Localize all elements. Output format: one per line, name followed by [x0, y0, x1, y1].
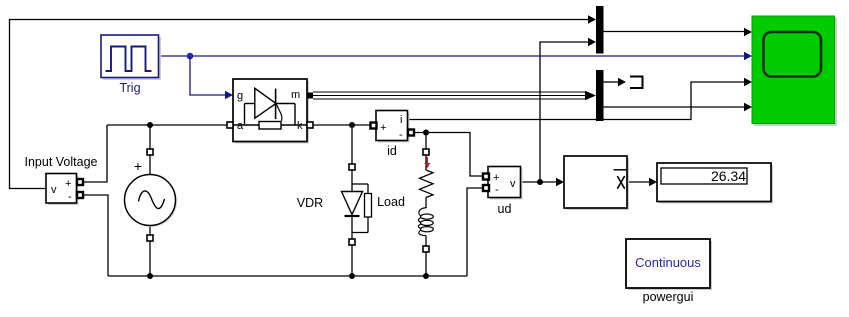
svg-text:powergui: powergui	[643, 290, 694, 304]
svg-text:id: id	[387, 144, 397, 158]
svg-text:k: k	[297, 120, 303, 132]
wire: thyristor m vector signal (triple line) to Demux	[313, 91, 586, 93]
current measurement id	[371, 111, 415, 159]
AC voltage source	[125, 149, 178, 241]
svg-text:Trig: Trig	[119, 81, 140, 95]
svg-text:VDR: VDR	[297, 196, 323, 210]
svg-text:m: m	[291, 89, 300, 101]
wire: load node down to Load branch	[425, 133, 427, 150]
arrow into Scope in4	[744, 103, 752, 111]
Demux (thyristor m vector)	[596, 70, 604, 121]
svg-text:ud: ud	[498, 202, 512, 216]
wire: Trig gate signal (blue) horizontal to Scope in2	[159, 55, 744, 57]
port a square	[227, 122, 233, 128]
svg-text:-: -	[495, 184, 499, 196]
wire: Input Voltage + sense up to anode rail	[83, 125, 107, 182]
wire: Mean block output to Display	[627, 181, 650, 183]
arrow into Mux in1	[588, 15, 596, 23]
VDR branch (diode + snubber)	[297, 127, 405, 276]
wire: Input Voltage - sense down to bottom rail	[83, 195, 108, 276]
node: id- / Load top junction	[423, 130, 429, 136]
svg-text:a: a	[237, 120, 244, 132]
Load series RL branch	[418, 149, 433, 276]
svg-text:Input Voltage: Input Voltage	[25, 155, 98, 169]
Terminator	[630, 77, 643, 89]
wire: anode rail (AC+ to thyristor a)	[107, 124, 227, 126]
port m square	[307, 93, 313, 99]
arrow into Demux	[585, 91, 596, 100]
pulse generator Trig	[101, 35, 161, 95]
wire: ud v output to Mean block	[521, 181, 558, 183]
node: Load bottom on bottom rail	[423, 273, 429, 279]
thyristor internal snubber resistor	[233, 124, 259, 126]
wire: id - output to load node, then to ud +	[414, 133, 483, 177]
node: cathode rail / VDR top junction	[349, 122, 355, 128]
powergui block	[626, 239, 712, 304]
svg-text:i: i	[400, 114, 402, 126]
Mean block	[564, 156, 629, 210]
wire: AC source top stem	[149, 125, 151, 150]
thyristor internal symbol	[245, 103, 255, 105]
arrow into thyristor g (blue)	[225, 91, 233, 99]
svg-text:+: +	[134, 158, 142, 174]
svg-text:v: v	[510, 178, 516, 190]
wire: AC source bottom stem	[149, 226, 151, 236]
wire: voltage measurement feedback loop (v out, left rail, top rail to Mux in1)	[10, 20, 590, 189]
svg-text:+: +	[493, 172, 499, 184]
voltage measurement ud	[483, 167, 523, 217]
svg-text:-: -	[68, 191, 72, 203]
node: VDR bottom on bottom rail	[349, 273, 355, 279]
wire: ud - from bottom rail	[467, 188, 483, 276]
svg-text:+: +	[380, 122, 386, 134]
wire: bottom return rail	[108, 275, 467, 277]
node: Trig signal junction (blue)	[187, 53, 194, 60]
Display block showing 26.34	[657, 163, 773, 204]
wire: Trig branch down to thyristor gate	[190, 56, 226, 95]
arrow into Scope in3	[744, 78, 752, 86]
svg-text:v: v	[51, 184, 57, 196]
svg-text:+: +	[65, 178, 71, 190]
svg-text:-: -	[399, 129, 403, 141]
svg-text:Continuous: Continuous	[635, 255, 701, 270]
Input Voltage measurement block	[25, 155, 98, 205]
arrow into Scope in2 (blue)	[744, 52, 752, 60]
svg-text:Load: Load	[377, 195, 405, 209]
node: anode rail / AC source + junction	[147, 122, 153, 128]
port k square	[307, 122, 313, 128]
wire: Demux out1 to Terminator	[604, 81, 620, 83]
wire: Demux out2 to Scope in4	[604, 106, 745, 108]
arrow into Mean block	[556, 178, 564, 186]
wire: Mux output to Scope in1	[604, 31, 745, 33]
arrow into Mux in2	[588, 38, 596, 46]
wire: id i signal to Scope in3	[408, 82, 744, 120]
svg-text:g: g	[237, 90, 243, 102]
node: AC source - on bottom rail	[147, 273, 153, 279]
Mux (2 inputs)	[596, 6, 604, 54]
thyristor block	[227, 79, 313, 144]
Scope	[752, 16, 837, 126]
arrow into Scope in1	[744, 28, 752, 36]
arrow into Terminator	[618, 78, 626, 86]
wire: cathode rail (thyristor k to id +)	[313, 124, 371, 126]
svg-text:26.34: 26.34	[711, 168, 746, 184]
arrow into Display	[649, 178, 657, 186]
node: ud output junction	[537, 179, 543, 185]
wire: ud output up to Mux in2	[540, 42, 589, 182]
